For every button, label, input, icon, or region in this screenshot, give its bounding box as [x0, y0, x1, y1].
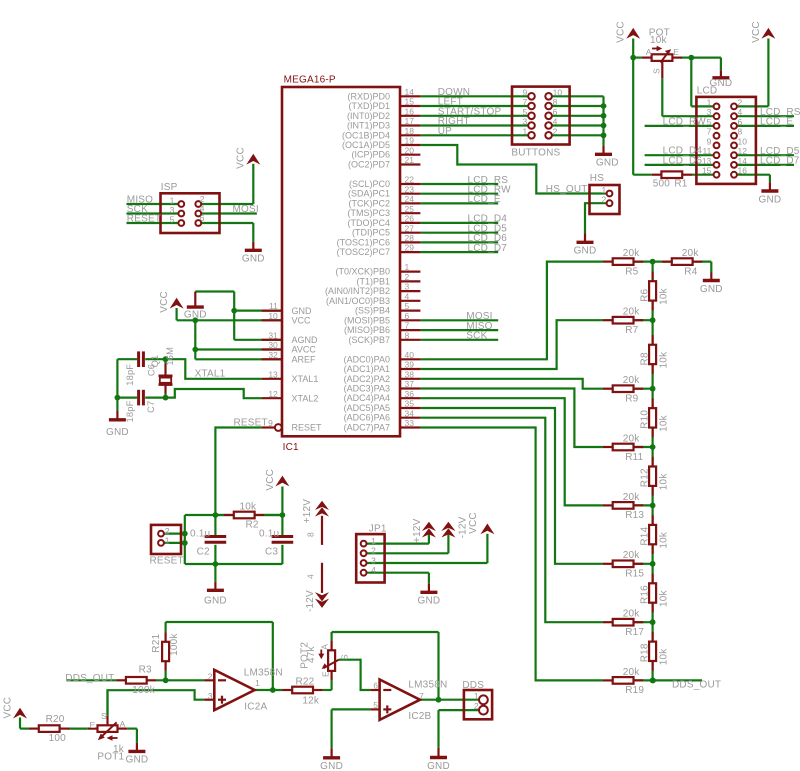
svg-text:GND: GND: [700, 284, 723, 295]
svg-text:RESET: RESET: [127, 213, 161, 224]
svg-text:5: 5: [170, 215, 175, 225]
svg-text:10k: 10k: [659, 287, 670, 305]
svg-text:R14: R14: [639, 526, 650, 545]
svg-text:29: 29: [405, 243, 415, 253]
svg-text:R13: R13: [625, 510, 644, 521]
svg-text:10k: 10k: [659, 351, 670, 369]
svg-text:(SS)PB4: (SS)PB4: [355, 306, 390, 316]
svg-text:20k: 20k: [623, 433, 641, 444]
svg-text:R2: R2: [246, 519, 259, 530]
svg-text:IC2B: IC2B: [408, 711, 431, 722]
svg-text:(ADC4)PA4: (ADC4)PA4: [344, 393, 390, 403]
svg-text:(TMS)PC3: (TMS)PC3: [348, 208, 391, 218]
svg-text:22: 22: [405, 175, 415, 185]
svg-text:36: 36: [405, 389, 415, 399]
svg-text:4: 4: [371, 565, 376, 575]
svg-text:2: 2: [601, 195, 606, 205]
svg-text:-12V: -12V: [458, 516, 469, 538]
svg-text:5: 5: [373, 700, 378, 710]
svg-text:47k: 47k: [306, 645, 317, 663]
svg-text:(TDI)PC5: (TDI)PC5: [352, 228, 390, 238]
svg-text:3: 3: [522, 117, 527, 127]
svg-text:VCC: VCC: [751, 21, 762, 43]
svg-text:MOSI: MOSI: [233, 204, 259, 215]
svg-text:(SCL)PC0: (SCL)PC0: [349, 179, 390, 189]
svg-text:13: 13: [268, 369, 278, 379]
svg-text:6: 6: [553, 107, 558, 117]
svg-text:LCD_D7: LCD_D7: [468, 243, 508, 254]
svg-text:13: 13: [702, 156, 712, 166]
svg-text:37: 37: [405, 379, 415, 389]
svg-text:Q1: Q1: [150, 355, 160, 368]
svg-text:AGND: AGND: [292, 335, 319, 345]
svg-text:E: E: [320, 671, 330, 677]
svg-text:(ADC3)PA3: (ADC3)PA3: [344, 384, 390, 394]
svg-text:+12V: +12V: [412, 518, 423, 543]
svg-text:RESET: RESET: [150, 555, 184, 566]
svg-text:-12V: -12V: [305, 590, 316, 612]
svg-text:AVCC: AVCC: [292, 345, 317, 355]
svg-text:VCC: VCC: [468, 512, 479, 534]
svg-text:VCC: VCC: [236, 147, 247, 169]
svg-text:28: 28: [405, 233, 415, 243]
svg-text:25: 25: [405, 204, 415, 214]
svg-text:23: 23: [405, 184, 415, 194]
svg-text:18pF: 18pF: [125, 364, 135, 386]
svg-text:11: 11: [702, 146, 711, 156]
svg-text:4: 4: [553, 117, 558, 127]
svg-text:HS: HS: [590, 173, 604, 184]
svg-text:9: 9: [522, 88, 527, 98]
svg-text:4: 4: [738, 107, 743, 117]
svg-text:C2: C2: [197, 546, 210, 557]
svg-text:20k: 20k: [623, 492, 641, 503]
svg-text:S: S: [340, 654, 350, 660]
svg-text:5: 5: [405, 301, 410, 311]
svg-text:2: 2: [405, 272, 410, 282]
svg-text:6: 6: [200, 213, 205, 223]
svg-text:20k: 20k: [623, 550, 641, 561]
svg-text:8: 8: [553, 97, 558, 107]
svg-text:2: 2: [208, 672, 213, 682]
svg-text:(ADC5)PA5: (ADC5)PA5: [344, 403, 390, 413]
svg-text:9: 9: [268, 418, 273, 428]
svg-text:R19: R19: [625, 685, 644, 696]
svg-text:40: 40: [405, 350, 415, 360]
svg-text:14: 14: [738, 156, 748, 166]
svg-text:MEGA16-P: MEGA16-P: [284, 75, 336, 86]
svg-text:GND: GND: [596, 158, 619, 169]
svg-text:GND: GND: [184, 310, 207, 321]
svg-text:R1: R1: [674, 179, 687, 190]
svg-text:ISP: ISP: [161, 182, 178, 193]
svg-text:16M: 16M: [165, 347, 175, 366]
svg-text:12k: 12k: [302, 696, 320, 707]
svg-text:12: 12: [738, 146, 748, 156]
svg-text:500: 500: [653, 179, 671, 190]
svg-text:(AIN1/OC0)PB3: (AIN1/OC0)PB3: [326, 296, 390, 306]
svg-text:R18: R18: [639, 643, 650, 662]
svg-text:VCC: VCC: [2, 697, 13, 719]
svg-text:38: 38: [405, 369, 415, 379]
svg-text:6: 6: [405, 311, 410, 321]
svg-text:10k: 10k: [659, 473, 670, 491]
svg-text:31: 31: [268, 330, 278, 340]
svg-text:10k: 10k: [659, 589, 670, 607]
svg-text:(INT1)PD3: (INT1)PD3: [347, 121, 390, 131]
svg-text:IC1: IC1: [283, 442, 299, 453]
svg-text:20k: 20k: [682, 248, 700, 259]
svg-text:3: 3: [170, 205, 175, 215]
svg-text:R3: R3: [139, 665, 152, 676]
svg-text:2: 2: [200, 194, 205, 204]
svg-text:10: 10: [268, 311, 278, 321]
svg-text:20k: 20k: [623, 667, 641, 678]
svg-text:R10: R10: [639, 410, 650, 429]
svg-text:VCC: VCC: [616, 21, 627, 43]
svg-text:(MOSI)PB5: (MOSI)PB5: [344, 315, 390, 325]
svg-text:R17: R17: [625, 627, 644, 638]
svg-text:UP: UP: [438, 126, 452, 137]
svg-text:GND: GND: [574, 246, 597, 257]
svg-text:(MISO)PB6: (MISO)PB6: [344, 325, 390, 335]
svg-text:34: 34: [405, 408, 415, 418]
svg-text:1: 1: [170, 196, 175, 206]
svg-text:IC2A: IC2A: [244, 702, 267, 713]
svg-text:GND: GND: [427, 761, 450, 771]
svg-text:R12: R12: [639, 468, 650, 487]
svg-text:15: 15: [702, 166, 712, 176]
svg-text:GND: GND: [292, 306, 313, 316]
svg-text:GND: GND: [106, 427, 129, 438]
svg-text:0.1u: 0.1u: [190, 528, 210, 539]
svg-text:A: A: [120, 719, 126, 729]
svg-text:(ADC6)PA6: (ADC6)PA6: [344, 413, 390, 423]
svg-text:15: 15: [405, 97, 415, 107]
svg-text:(T0/XCK)PB0: (T0/XCK)PB0: [335, 267, 390, 277]
svg-text:R4: R4: [684, 266, 697, 277]
svg-text:(INT0)PD2: (INT0)PD2: [347, 111, 390, 121]
svg-text:4: 4: [200, 204, 205, 214]
svg-text:LCD_D7: LCD_D7: [760, 156, 800, 167]
svg-text:3: 3: [208, 691, 213, 701]
svg-text:(AIN0/INT2)PB2: (AIN0/INT2)PB2: [325, 286, 390, 296]
svg-text:10k: 10k: [659, 531, 670, 549]
svg-text:7: 7: [405, 321, 410, 331]
svg-text:6: 6: [373, 681, 378, 691]
svg-text:(SCK)PB7: (SCK)PB7: [348, 335, 390, 345]
svg-text:3: 3: [371, 555, 376, 565]
svg-text:1: 1: [601, 185, 606, 195]
svg-text:10k: 10k: [650, 35, 668, 46]
svg-text:10k: 10k: [659, 648, 670, 666]
svg-text:R16: R16: [639, 585, 650, 604]
svg-text:8: 8: [405, 330, 410, 340]
svg-text:XTAL1: XTAL1: [195, 368, 226, 379]
svg-text:32: 32: [268, 350, 278, 360]
svg-text:GND: GND: [758, 194, 781, 205]
svg-text:6: 6: [738, 117, 743, 127]
svg-text:10: 10: [553, 88, 563, 98]
svg-text:(TOSC2)PC7: (TOSC2)PC7: [337, 247, 390, 257]
svg-text:(ADC1)PA1: (ADC1)PA1: [344, 364, 390, 374]
svg-text:C3: C3: [265, 546, 278, 557]
svg-text:LM358N: LM358N: [244, 668, 283, 679]
svg-text:3: 3: [405, 282, 410, 292]
svg-text:20k: 20k: [623, 375, 641, 386]
svg-text:R7: R7: [625, 325, 638, 336]
svg-text:3: 3: [707, 107, 712, 117]
svg-text:1: 1: [474, 691, 479, 701]
svg-text:SCK: SCK: [466, 331, 487, 342]
svg-text:33: 33: [405, 418, 415, 428]
svg-text:9: 9: [707, 136, 712, 146]
svg-text:1: 1: [165, 535, 170, 545]
svg-text:HS_OUT: HS_OUT: [546, 184, 588, 195]
svg-text:R5: R5: [625, 266, 638, 277]
svg-text:(SDA)PC1: (SDA)PC1: [348, 189, 390, 199]
svg-text:(TOSC1)PC6: (TOSC1)PC6: [337, 237, 390, 247]
svg-text:14: 14: [405, 87, 415, 97]
svg-text:24: 24: [405, 194, 415, 204]
svg-text:+12V: +12V: [302, 499, 313, 524]
svg-text:16: 16: [405, 106, 415, 116]
svg-text:20k: 20k: [623, 248, 641, 259]
svg-text:LCD_E: LCD_E: [760, 117, 793, 128]
svg-text:VCC: VCC: [265, 469, 276, 491]
svg-text:(OC1A)PD5: (OC1A)PD5: [342, 140, 390, 150]
svg-text:R9: R9: [625, 394, 638, 405]
svg-text:(TDO)PC4: (TDO)PC4: [348, 218, 391, 228]
svg-text:11: 11: [269, 301, 278, 311]
svg-text:R15: R15: [625, 569, 644, 580]
svg-text:E: E: [90, 720, 96, 730]
svg-text:21: 21: [405, 155, 415, 165]
svg-text:LCD_E: LCD_E: [468, 194, 501, 205]
svg-text:10k: 10k: [659, 414, 670, 432]
svg-text:0.1u: 0.1u: [259, 528, 279, 539]
svg-text:(RXD)PD0: (RXD)PD0: [347, 91, 390, 101]
svg-text:XTAL1: XTAL1: [292, 374, 319, 384]
svg-text:(ADC7)PA7: (ADC7)PA7: [344, 423, 390, 433]
svg-text:JP1: JP1: [369, 524, 387, 535]
svg-text:1: 1: [522, 127, 527, 137]
svg-text:R11: R11: [625, 452, 643, 463]
svg-text:7: 7: [707, 127, 712, 137]
svg-text:R22: R22: [296, 676, 315, 687]
svg-text:POT1: POT1: [97, 751, 124, 762]
svg-text:RESET: RESET: [292, 423, 323, 433]
svg-text:39: 39: [405, 360, 415, 370]
svg-text:(ADC0)PA0: (ADC0)PA0: [344, 354, 390, 364]
svg-text:VCC: VCC: [159, 291, 170, 313]
svg-text:XTAL2: XTAL2: [292, 393, 319, 403]
svg-text:(OC2)PD7: (OC2)PD7: [348, 160, 390, 170]
svg-text:4: 4: [405, 291, 410, 301]
svg-text:S: S: [101, 711, 107, 721]
svg-text:DDS_OUT: DDS_OUT: [672, 680, 721, 691]
svg-text:1: 1: [405, 262, 410, 272]
svg-text:AREF: AREF: [292, 355, 317, 365]
svg-text:18pF: 18pF: [125, 400, 135, 422]
svg-text:7: 7: [419, 691, 424, 701]
svg-text:LCD_RW: LCD_RW: [663, 116, 707, 127]
svg-text:(TCK)PC2: (TCK)PC2: [348, 198, 390, 208]
svg-text:8: 8: [306, 532, 316, 537]
svg-text:20: 20: [405, 145, 415, 155]
svg-text:100k: 100k: [169, 633, 180, 656]
svg-text:R21: R21: [151, 634, 162, 653]
svg-text:20k: 20k: [623, 307, 641, 318]
svg-text:7: 7: [522, 97, 527, 107]
svg-text:8: 8: [738, 127, 743, 137]
svg-text:(T1)PB1: (T1)PB1: [356, 276, 390, 286]
svg-text:BUTTONS: BUTTONS: [511, 147, 560, 158]
svg-text:R6: R6: [639, 288, 650, 301]
svg-text:12: 12: [268, 389, 278, 399]
svg-text:2: 2: [738, 97, 743, 107]
svg-text:27: 27: [405, 223, 415, 233]
svg-text:2: 2: [553, 127, 558, 137]
svg-text:RESET: RESET: [234, 417, 268, 428]
svg-text:10k: 10k: [240, 501, 258, 512]
svg-text:VCC: VCC: [292, 316, 312, 326]
svg-text:100: 100: [49, 733, 67, 744]
svg-text:(TXD)PD1: (TXD)PD1: [348, 101, 390, 111]
svg-text:(OC1B)PD4: (OC1B)PD4: [342, 130, 390, 140]
svg-text:GND: GND: [709, 78, 732, 89]
svg-text:1: 1: [707, 97, 712, 107]
svg-text:4: 4: [306, 574, 316, 579]
svg-text:2: 2: [371, 546, 376, 556]
svg-text:10: 10: [738, 136, 748, 146]
svg-text:GND: GND: [125, 755, 148, 766]
svg-text:A: A: [646, 47, 652, 57]
svg-text:18: 18: [405, 126, 415, 136]
svg-text:5: 5: [522, 107, 527, 117]
svg-text:R20: R20: [46, 714, 65, 725]
svg-text:GND: GND: [242, 254, 265, 265]
svg-text:17: 17: [405, 116, 415, 126]
svg-text:35: 35: [405, 399, 415, 409]
svg-text:(ICP)PD6: (ICP)PD6: [351, 150, 390, 160]
svg-text:100k: 100k: [132, 685, 155, 696]
svg-text:2: 2: [474, 701, 479, 711]
svg-text:1: 1: [371, 536, 376, 546]
svg-text:S: S: [652, 68, 662, 74]
svg-text:(ADC2)PA2: (ADC2)PA2: [344, 374, 390, 384]
svg-text:GND: GND: [417, 596, 440, 607]
svg-text:GND: GND: [204, 595, 227, 606]
svg-text:E: E: [673, 47, 679, 57]
svg-text:19: 19: [405, 136, 415, 146]
svg-text:20k: 20k: [623, 609, 641, 620]
svg-text:DDS_OUT: DDS_OUT: [65, 673, 114, 684]
svg-text:GND: GND: [320, 761, 343, 771]
svg-text:DDS: DDS: [462, 680, 484, 691]
svg-text:LM358N: LM358N: [408, 680, 447, 691]
svg-text:C7: C7: [146, 401, 156, 413]
svg-text:A: A: [319, 644, 329, 650]
svg-text:1: 1: [255, 678, 260, 688]
svg-text:LCD_D6: LCD_D6: [663, 155, 703, 166]
svg-text:5: 5: [707, 117, 712, 127]
svg-text:26: 26: [405, 214, 415, 224]
svg-text:30: 30: [268, 340, 278, 350]
svg-text:R8: R8: [639, 352, 650, 365]
svg-text:16: 16: [738, 166, 748, 176]
